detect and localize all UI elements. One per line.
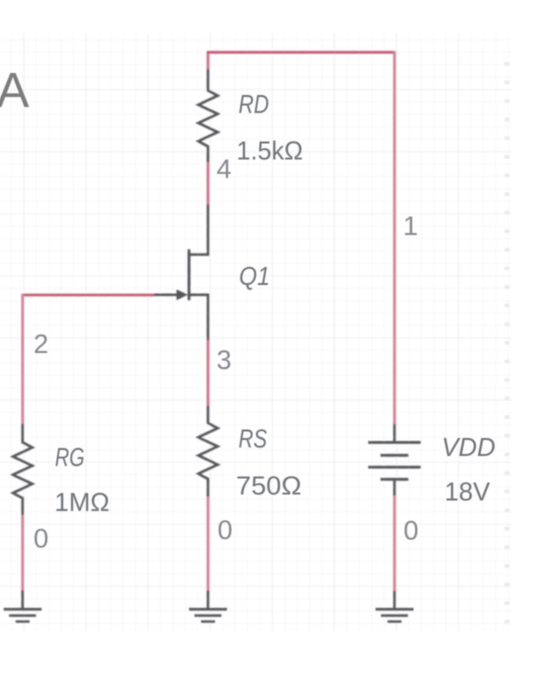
svg-text:1: 1 [403, 211, 418, 241]
svg-text:3: 3 [217, 345, 232, 375]
svg-text:1MΩ: 1MΩ [55, 487, 110, 517]
svg-text:4: 4 [217, 154, 232, 184]
svg-text:Q1: Q1 [239, 261, 270, 291]
wire: net 4, RD bottom to Q1 drain [207, 162, 210, 204]
wire: net 0, RS bottom to ground [207, 497, 210, 591]
svg-text:750Ω: 750Ω [236, 471, 302, 501]
resistor RS [198, 406, 217, 497]
svg-text:0: 0 [404, 516, 419, 546]
wire: net 1, RD top stub [207, 52, 210, 70]
wire: net 0, VDD negative terminal to ground [393, 496, 396, 592]
svg-text:A: A [0, 64, 30, 118]
ground (RS branch) [189, 591, 227, 622]
ground (RG branch) [4, 591, 42, 622]
svg-text:RS: RS [239, 424, 268, 454]
wire: net 2, vertical run to RG [21, 294, 24, 424]
resistor RG [13, 424, 32, 515]
resistor RD [198, 69, 217, 162]
ground (VDD branch) [376, 591, 414, 622]
svg-text:2: 2 [34, 329, 49, 359]
svg-text:RD: RD [239, 89, 270, 119]
wire: net 1, top horizontal run to VDD [207, 51, 395, 54]
svg-text:VDD: VDD [442, 432, 496, 462]
battery VDD [368, 424, 421, 496]
transistor Q1 [154, 205, 208, 341]
wire: net 1, VDD positive vertical run [393, 51, 396, 424]
svg-text:RG: RG [55, 442, 85, 472]
wire: net 2, Q1 gate horizontal run [23, 294, 155, 297]
svg-text:1.5kΩ: 1.5kΩ [237, 135, 304, 165]
wire: net 3, Q1 source to RS top [207, 340, 210, 406]
wire: net 0, RG bottom to ground [21, 515, 24, 592]
svg-text:18V: 18V [445, 476, 491, 506]
svg-text:0: 0 [34, 524, 49, 554]
svg-text:0: 0 [218, 515, 233, 545]
